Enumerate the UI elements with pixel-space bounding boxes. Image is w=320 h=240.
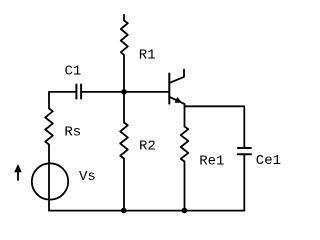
svg-text:Ce1: Ce1 (256, 153, 281, 169)
svg-text:R2: R2 (139, 138, 156, 154)
svg-text:Re1: Re1 (199, 154, 224, 170)
svg-text:Rs: Rs (64, 124, 81, 140)
svg-text:C1: C1 (65, 63, 82, 79)
svg-text:Vs: Vs (79, 169, 96, 185)
svg-text:R1: R1 (139, 48, 156, 64)
